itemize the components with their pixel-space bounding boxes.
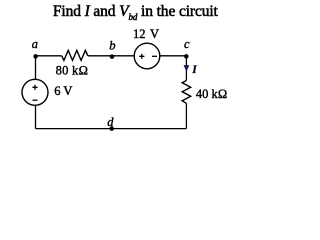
wire: resistor to 12V source [88, 55, 134, 57]
wire: 6V source to bottom left corner [35, 105, 37, 128]
voltage source 6V (circle) [22, 79, 48, 105]
svg-text:80 kΩ: 80 kΩ [56, 64, 89, 78]
node c (dot) [184, 54, 189, 59]
svg-text:I: I [191, 64, 197, 76]
resistor R 80 kOhm (horizontal zigzag) [62, 50, 88, 60]
svg-text:d: d [107, 115, 114, 129]
wire: 40k resistor to bottom right corner [185, 103, 187, 128]
wire: bottom horizontal [36, 128, 187, 130]
minus sign inside 6V source [33, 99, 38, 101]
svg-text:6 V: 6 V [54, 84, 72, 98]
plus sign inside 6V source [32, 85, 37, 90]
svg-text:c: c [184, 37, 190, 51]
resistor 40 kOhm (vertical zigzag) [182, 81, 191, 104]
wire: left vertical from a down to 6V source [35, 56, 37, 80]
wire: top left segment a to 80k resistor [36, 55, 62, 57]
wire: right vertical from c down to 40k resistor [185, 56, 187, 81]
node a (dot) [33, 54, 38, 59]
svg-text:40 kΩ: 40 kΩ [196, 87, 227, 101]
svg-text:12 V: 12 V [133, 27, 159, 41]
node b (dot) [110, 54, 115, 59]
node d (dot) [109, 126, 114, 131]
plus sign inside 12V source [139, 54, 144, 59]
svg-text:b: b [109, 38, 115, 52]
voltage source 12V (circle) [134, 43, 160, 69]
wire: 12V source to corner c [160, 55, 187, 57]
current arrow I (blue) [184, 65, 190, 72]
svg-text:a: a [32, 37, 38, 51]
minus sign inside 12V source [152, 55, 157, 57]
